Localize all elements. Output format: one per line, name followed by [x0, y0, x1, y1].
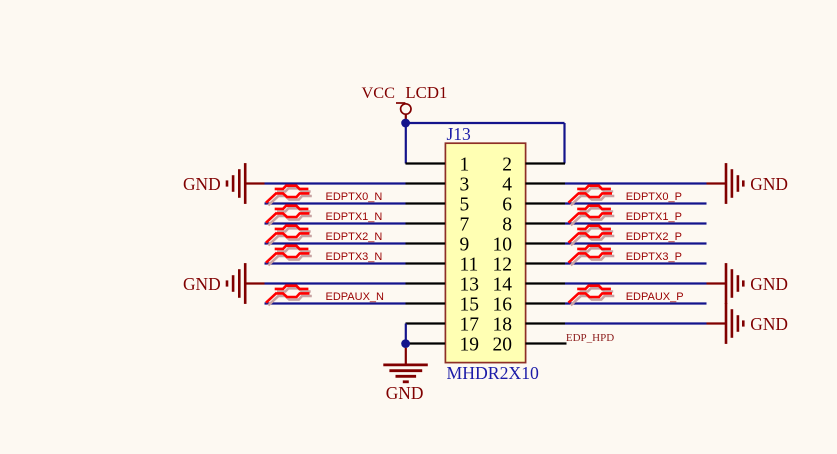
svg-text:3: 3 — [460, 174, 470, 195]
svg-text:GND: GND — [750, 274, 788, 294]
pin 17 — [406, 314, 480, 335]
svg-text:14: 14 — [493, 274, 513, 295]
pin 8 — [502, 214, 565, 235]
pin 7 — [406, 214, 470, 235]
wire net EDPTX3_P — [565, 262, 707, 264]
svg-text:12: 12 — [493, 254, 513, 275]
wire net EDPTX3_N — [265, 262, 406, 264]
power port GND right upper — [707, 163, 788, 204]
svg-text:GND: GND — [183, 274, 221, 294]
svg-text:8: 8 — [502, 214, 512, 235]
pin 14 — [493, 274, 566, 295]
svg-text:5: 5 — [460, 194, 470, 215]
wire pin18 to GND — [565, 322, 707, 324]
differential pair directive EDPAUX_P — [569, 286, 615, 306]
pin 9 — [406, 234, 470, 255]
wire pin3 to GND — [265, 182, 406, 184]
pin 10 — [493, 234, 566, 255]
differential pair directive EDPTX0_P — [569, 186, 615, 206]
junction GND node — [401, 339, 410, 348]
junction VCC node — [401, 119, 410, 128]
svg-text:1: 1 — [460, 154, 470, 175]
svg-text:EDPTX3_N: EDPTX3_N — [326, 251, 383, 263]
differential pair directive EDPTX2_P — [569, 226, 615, 246]
svg-text:2: 2 — [502, 154, 512, 175]
svg-text:10: 10 — [493, 234, 513, 255]
connector J13 body — [445, 143, 525, 362]
power port GND left upper — [183, 163, 264, 204]
pin 4 — [502, 174, 565, 195]
svg-text:EDPTX0_N: EDPTX0_N — [326, 191, 383, 203]
pin 16 — [493, 294, 566, 315]
wire net EDPTX0_P — [565, 202, 707, 204]
svg-text:4: 4 — [502, 174, 512, 195]
svg-text:20: 20 — [493, 334, 513, 355]
differential pair directive EDPAUX_N — [266, 286, 312, 306]
svg-text:GND: GND — [750, 174, 788, 194]
wire net EDPTX1_N — [265, 222, 406, 224]
svg-text:EDPTX1_P: EDPTX1_P — [626, 211, 682, 223]
wire net EDPTX2_P — [565, 242, 707, 244]
svg-text:EDPTX0_P: EDPTX0_P — [626, 191, 682, 203]
svg-text:EDPTX3_P: EDPTX3_P — [626, 251, 682, 263]
wire net EDPTX1_P — [565, 222, 707, 224]
pin 2 — [502, 154, 565, 175]
svg-text:17: 17 — [460, 314, 480, 335]
wire pin13 to GND — [265, 282, 406, 284]
svg-text:GND: GND — [750, 314, 788, 334]
svg-text:7: 7 — [460, 214, 470, 235]
svg-text:GND: GND — [386, 383, 424, 403]
svg-text:EDPTX2_P: EDPTX2_P — [626, 231, 682, 243]
svg-text:LCD1: LCD1 — [405, 83, 447, 102]
power port GND right lower — [707, 303, 788, 344]
svg-text:15: 15 — [460, 294, 480, 315]
wire VCC to pin 1 — [405, 123, 407, 164]
pin 20 — [493, 334, 567, 355]
wire pin4 to GND — [565, 182, 707, 184]
wire net EDPTX2_N — [265, 242, 406, 244]
svg-text:9: 9 — [460, 234, 470, 255]
differential pair directive EDPTX1_N — [266, 206, 312, 226]
pin 12 — [493, 254, 566, 275]
power port VCC_LCD1 — [362, 83, 448, 123]
svg-text:6: 6 — [502, 194, 512, 215]
differential pair directive EDPTX0_N — [266, 186, 312, 206]
differential pair directive EDPTX1_P — [569, 206, 615, 226]
svg-text:16: 16 — [493, 294, 513, 315]
svg-text:18: 18 — [493, 314, 513, 335]
pin 5 — [406, 194, 470, 215]
power port GND left lower — [183, 263, 264, 304]
svg-text:EDPTX1_N: EDPTX1_N — [326, 211, 383, 223]
wire VCC top rail — [406, 122, 565, 124]
power port GND bottom earth — [383, 348, 428, 403]
pin 3 — [406, 174, 470, 195]
differential pair directive EDPTX3_P — [569, 246, 615, 266]
wire net EDPTX0_N — [265, 202, 406, 204]
pin 18 — [493, 314, 566, 335]
svg-text:J13: J13 — [447, 124, 472, 144]
pin 11 — [406, 254, 479, 275]
pin 13 — [406, 274, 480, 295]
svg-text:19: 19 — [460, 334, 480, 355]
power port GND right middle — [707, 263, 788, 304]
differential pair directive EDPTX2_N — [266, 226, 312, 246]
svg-text:11: 11 — [460, 254, 479, 275]
svg-text:VCC: VCC — [362, 83, 395, 102]
differential pair directive EDPTX3_N — [266, 246, 312, 266]
pin 6 — [502, 194, 565, 215]
wire net EDPAUX_P — [565, 302, 707, 304]
svg-text:EDPAUX_P: EDPAUX_P — [626, 291, 684, 303]
svg-text:EDP_HPD: EDP_HPD — [566, 332, 614, 344]
wire VCC to pin 2 — [563, 123, 565, 164]
pin 1 — [406, 154, 470, 175]
pin 19 — [406, 334, 480, 355]
wire net EDPAUX_N — [265, 302, 406, 304]
wire pin17 down — [405, 324, 407, 344]
svg-text:MHDR2X10: MHDR2X10 — [447, 363, 540, 383]
svg-text:13: 13 — [460, 274, 480, 295]
pin 15 — [406, 294, 480, 315]
wire pin14 to GND — [565, 282, 707, 284]
svg-text:EDPTX2_N: EDPTX2_N — [326, 231, 383, 243]
svg-text:EDPAUX_N: EDPAUX_N — [326, 291, 385, 303]
svg-text:GND: GND — [183, 174, 221, 194]
